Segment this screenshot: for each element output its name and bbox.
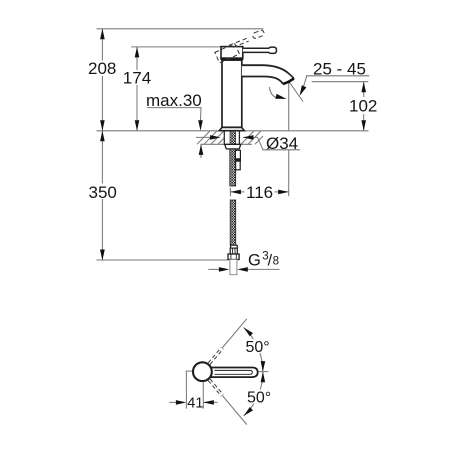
svg-text:Ø34: Ø34	[266, 134, 298, 153]
svg-text:max.30: max.30	[146, 91, 202, 110]
svg-text:208: 208	[88, 59, 116, 78]
svg-text:102: 102	[349, 97, 377, 116]
svg-text:G: G	[248, 252, 261, 270]
svg-text:8: 8	[273, 256, 279, 268]
svg-text:25 - 45: 25 - 45	[313, 60, 366, 79]
svg-text:50°: 50°	[247, 389, 271, 406]
svg-text:174: 174	[123, 68, 151, 87]
svg-text:50°: 50°	[246, 339, 270, 356]
svg-text:41: 41	[187, 395, 203, 411]
svg-text:116: 116	[246, 183, 273, 202]
svg-text:350: 350	[89, 183, 117, 202]
